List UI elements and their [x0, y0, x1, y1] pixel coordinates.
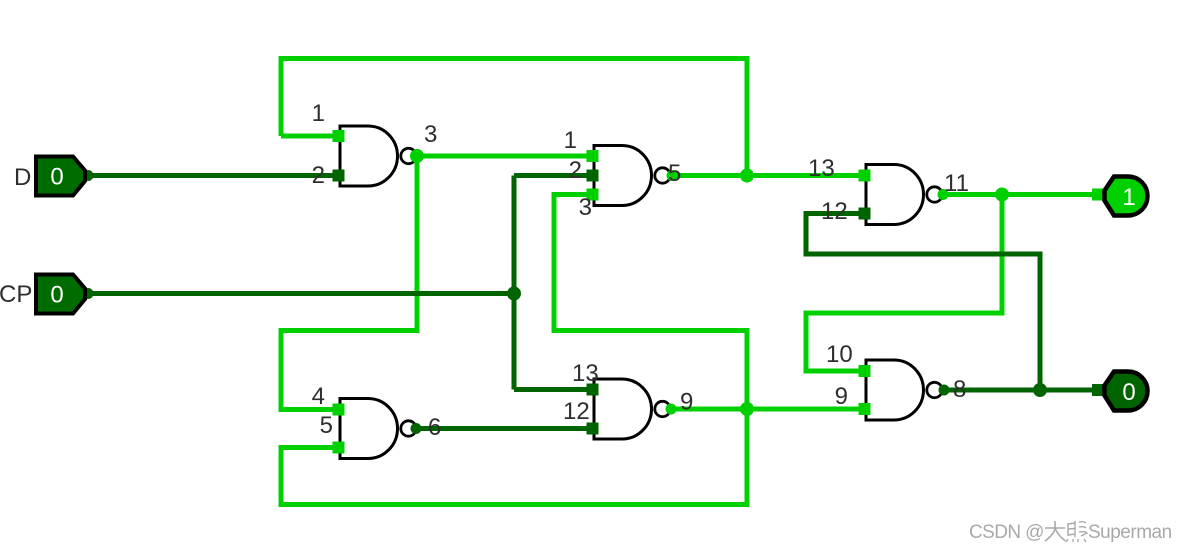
- nand gate U2 (inputs 1,2,3 output 5): [594, 146, 670, 206]
- svg-text:10: 10: [826, 341, 853, 368]
- nand gate U1 (inputs 1,2 output 3): [340, 126, 416, 186]
- svg-text:8: 8: [953, 376, 966, 403]
- wire U5 output9 to U6 input9: [671, 407, 866, 412]
- wire top feedback loop: U3 output net up-over to U1 input 1: [281, 59, 747, 176]
- svg-text:5: 5: [320, 412, 333, 439]
- endpoint dot U3 output11: [938, 189, 949, 200]
- junction node Qbar: [1033, 383, 1047, 397]
- port square U2 pin1: [587, 150, 599, 162]
- port square U6 pin9: [859, 403, 871, 415]
- endpoint dot CP pin tip: [83, 288, 94, 299]
- port square U5 pin13: [587, 384, 599, 396]
- svg-text:3: 3: [424, 121, 437, 148]
- wire U2 input3 loop from node9: [554, 195, 747, 410]
- nand gate U5 (inputs 13,12 output 9): [594, 379, 670, 439]
- wire U3 output11 to pin Q: [944, 192, 1098, 197]
- svg-text:13: 13: [572, 360, 599, 387]
- nand gate U4 (inputs 4,5 output 6): [340, 399, 416, 459]
- port square output pin Qbar: [1092, 384, 1104, 396]
- wire Qbar feedback to U3 input12: [806, 214, 1040, 391]
- wire CP branch to U2 input2: [514, 173, 594, 178]
- glyph 大: [1045, 521, 1066, 541]
- svg-text:12: 12: [821, 198, 848, 225]
- svg-text:1: 1: [564, 127, 577, 154]
- junction node CP: [507, 287, 521, 301]
- svg-text:CSDN @: CSDN @: [969, 522, 1044, 543]
- wire U1 output3 to U2 input1: [415, 154, 594, 159]
- junction node at U1 output: [410, 149, 424, 163]
- output pin Qbar value 0: [1105, 372, 1148, 411]
- port square U5 pin12: [587, 423, 599, 435]
- wire U6 output8 to pin Qbar: [944, 388, 1098, 393]
- svg-text:CP: CP: [0, 281, 32, 308]
- wire CP pin to node CP: [86, 291, 514, 296]
- junction node 9: [740, 402, 754, 416]
- svg-text:1: 1: [1122, 184, 1135, 211]
- svg-text:6: 6: [428, 414, 441, 441]
- port square U3 pin12: [859, 208, 871, 220]
- nand gate U6 (inputs 10,9 output 8): [866, 360, 942, 420]
- wire U4 output6 to U5 input12: [416, 426, 594, 431]
- endpoint dot U6 output8: [939, 385, 950, 396]
- svg-text:11: 11: [944, 170, 969, 197]
- svg-text:0: 0: [1122, 379, 1135, 406]
- svg-text:9: 9: [680, 389, 693, 416]
- port square U4 pin4: [333, 404, 345, 416]
- endpoint dot U2 output5: [667, 170, 678, 181]
- junction node Q: [995, 188, 1009, 202]
- svg-text:13: 13: [808, 155, 835, 182]
- port square U1 pin2: [333, 170, 345, 182]
- nand gate U3 (inputs 13,12 output 11): [866, 165, 942, 225]
- svg-text:5: 5: [668, 160, 681, 187]
- output pin Q value 1: [1105, 177, 1148, 216]
- svg-text:0: 0: [50, 164, 63, 191]
- endpoint dot D pin tip: [83, 170, 94, 181]
- svg-text:2: 2: [569, 157, 582, 184]
- wire bottom loop node9 to U4 input5: [281, 409, 747, 505]
- wire D pin to U1 input2: [86, 173, 340, 178]
- wire U2 output5 to U3 input13: [671, 173, 866, 178]
- svg-text:1: 1: [312, 100, 325, 127]
- svg-text:Superman: Superman: [1088, 522, 1172, 543]
- port square U3 pin13: [859, 170, 871, 182]
- wire U1 input1 stub: [281, 134, 340, 139]
- watermark CSDN: [969, 521, 1172, 543]
- svg-text:4: 4: [312, 383, 325, 410]
- svg-text:D: D: [14, 164, 31, 191]
- junction node at U2 output net: [740, 169, 754, 183]
- bright (logic-1) wires: [281, 59, 1098, 505]
- wire Q feedback down to U6 input10: [806, 195, 1002, 372]
- svg-text:2: 2: [312, 162, 325, 189]
- endpoint dot U5 output9: [666, 404, 677, 415]
- wire U1 output3 down-left-down to U4 input4: [281, 156, 417, 410]
- input pin D: [36, 157, 85, 196]
- wire CP vertical branch: [512, 176, 517, 390]
- port square U2 pin2: [587, 170, 599, 182]
- port square U6 pin10: [859, 365, 871, 377]
- port square U2 pin3: [587, 189, 599, 201]
- glyph 熊: [1066, 521, 1087, 542]
- port square U4 pin5: [333, 442, 345, 454]
- port square U1 pin1: [333, 130, 345, 142]
- port square output pin Q: [1092, 189, 1104, 201]
- input pin CP: [36, 275, 85, 314]
- dark (logic-0) wires: [86, 176, 1098, 429]
- endpoint dot U4 output6: [411, 423, 422, 434]
- svg-text:0: 0: [50, 282, 63, 309]
- wire CP branch to U5 input13: [514, 387, 594, 392]
- svg-text:9: 9: [835, 383, 848, 410]
- svg-text:3: 3: [579, 194, 592, 221]
- svg-text:12: 12: [563, 398, 590, 425]
- pin number labels: [312, 100, 969, 441]
